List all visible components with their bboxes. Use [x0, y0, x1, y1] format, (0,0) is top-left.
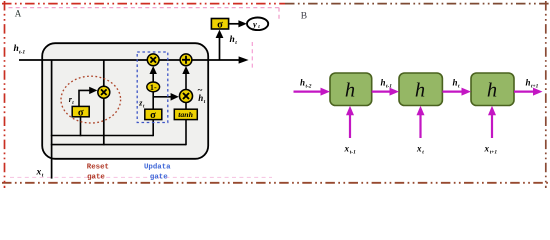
wire h(t) up branch — [219, 32, 221, 60]
label x(t) — [416, 144, 424, 156]
svg-text:t-1: t-1 — [386, 84, 392, 90]
label h(t-2) — [300, 78, 312, 90]
label x(t-1) — [344, 144, 357, 156]
svg-text:B: B — [301, 11, 307, 21]
svg-text:tanh: tanh — [178, 110, 193, 119]
mult node (update, on h-line) — [147, 54, 159, 66]
arrowhead h(t) output right — [239, 56, 249, 63]
panel B pink dashed stub — [251, 42, 253, 68]
border top-left segment — [2, 3, 285, 5]
label h(t) mid — [453, 78, 461, 90]
svg-text:t-1: t-1 — [19, 49, 25, 55]
svg-text:t+1: t+1 — [531, 84, 539, 90]
mult node (z*htilde) — [180, 90, 193, 103]
svg-text:Reset: Reset — [87, 163, 109, 171]
arrow h(t-2) into box1 — [294, 88, 331, 96]
svg-text:A: A — [15, 8, 22, 18]
rnn cell h box 1 — [330, 73, 372, 106]
svg-text:t: t — [235, 40, 237, 46]
label r(t) — [69, 95, 75, 106]
wire bus2 — [51, 144, 186, 146]
svg-text:h: h — [453, 78, 458, 88]
arrow box1 to box2 — [372, 88, 399, 96]
svg-text:h: h — [487, 79, 497, 101]
svg-text:gate: gate — [87, 174, 105, 182]
arrow x(t-1) up into box1 — [346, 106, 354, 138]
svg-text:x: x — [484, 144, 490, 154]
tanh box — [174, 109, 197, 119]
border top-right segment — [285, 3, 549, 5]
svg-text:t-1: t-1 — [350, 150, 356, 156]
label h(t-1) — [14, 44, 26, 55]
arrow x(t) up into box2 — [417, 106, 425, 138]
wire sigma to 1- link — [152, 91, 154, 109]
label Updata gate — [144, 164, 171, 182]
svg-text:σ: σ — [78, 107, 84, 118]
y(t) output ellipse — [247, 18, 268, 31]
wire sigma-out to y(t) arrow — [229, 23, 241, 25]
figure outer border (red dash-dot frame) — [2, 1, 549, 188]
svg-text:t: t — [422, 150, 424, 156]
svg-text:1-: 1- — [150, 83, 157, 92]
svg-text:h: h — [526, 78, 531, 88]
svg-text:y: y — [252, 19, 257, 29]
sigma box (reset) — [72, 106, 89, 118]
label x(t) — [36, 168, 44, 179]
wire update-sigma drop — [152, 120, 154, 137]
svg-text:h: h — [300, 78, 305, 88]
panel A pink dashed box bottom edge — [10, 176, 272, 178]
svg-text:t-2: t-2 — [306, 84, 312, 90]
border bottom segment — [2, 182, 549, 184]
svg-text:h: h — [230, 35, 235, 45]
panel A pink dashed box top edge — [9, 7, 280, 9]
rnn cell h box 2 — [399, 73, 442, 106]
svg-text:σ: σ — [217, 20, 223, 31]
wire reset-sigma drop — [80, 117, 82, 137]
arrow h(t+1) out of box3 — [514, 88, 543, 96]
svg-text:x: x — [344, 144, 350, 154]
label Reset gate — [87, 163, 109, 181]
label h(t-1) mid — [381, 78, 393, 90]
svg-text:h: h — [198, 93, 203, 103]
wire second mult to plus arrow — [185, 72, 187, 90]
arrow box2 to box3 — [442, 88, 471, 96]
border right segment — [545, 1, 547, 188]
wire bus1 — [51, 135, 153, 137]
wire tanh drop — [185, 120, 187, 146]
svg-text:t+1: t+1 — [490, 150, 498, 156]
border left segment — [4, 1, 6, 188]
wire x(t)/h branch vertical left — [51, 60, 53, 179]
GRU cell body — [42, 43, 208, 159]
arrow x(t+1) up into box3 — [488, 106, 496, 138]
sigma box (output, top) — [211, 19, 228, 31]
wire h(t-1) main horizontal line — [19, 59, 241, 61]
svg-text:x: x — [36, 168, 42, 178]
svg-text:Updata: Updata — [144, 164, 171, 172]
plus node (on h-line) — [180, 54, 192, 66]
reset gate red dotted ellipse — [61, 76, 121, 123]
wire 1- to mult arrow — [152, 72, 154, 82]
rnn cell h box 3 — [471, 73, 514, 106]
svg-text:h: h — [14, 44, 19, 54]
svg-text:h: h — [415, 79, 425, 101]
label h(t+1) — [526, 78, 539, 90]
svg-text:t: t — [458, 84, 460, 90]
wire z(t) branch to second mult — [153, 96, 172, 98]
label h(t) top — [230, 35, 238, 46]
wire reset-mult vertical — [103, 60, 105, 145]
panel A pink dashed box right stub — [278, 8, 280, 21]
svg-text:σ: σ — [150, 110, 156, 121]
label htilde(t) — [198, 85, 206, 105]
mult node (reset) — [98, 86, 110, 98]
svg-text:x: x — [416, 144, 422, 154]
svg-text:gate: gate — [150, 174, 168, 182]
1- ellipse node — [147, 82, 160, 92]
wire r(t) arrow (sigma to reset mult) — [79, 90, 92, 106]
svg-text:h: h — [345, 79, 355, 101]
update gate blue dashed rect — [137, 52, 168, 123]
wire tanh to second mult link — [185, 103, 187, 109]
svg-text:h: h — [381, 78, 386, 88]
label z(t) — [138, 99, 145, 110]
label x(t+1) — [484, 144, 498, 156]
sigma box (update) — [145, 109, 162, 121]
